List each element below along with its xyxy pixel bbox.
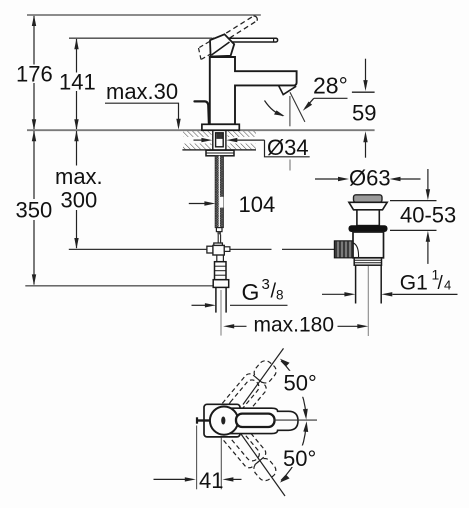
knurled knob — [334, 241, 353, 258]
dimension 40-53 — [427, 169, 429, 196]
svg-text:41: 41 — [199, 468, 223, 493]
counter top line — [27, 129, 375, 131]
svg-text:G: G — [242, 279, 260, 305]
escutcheon — [202, 124, 239, 130]
28 deg spray line — [290, 92, 305, 122]
svg-text:max.180: max.180 — [254, 314, 335, 337]
drain body — [353, 232, 384, 258]
lower 50deg leader diagonal — [241, 434, 285, 496]
rod linkage fitting — [214, 243, 223, 247]
label G1 1/4 with leader — [322, 293, 345, 295]
handle base — [210, 34, 234, 56]
water stream line — [289, 96, 291, 126]
50deg centerline — [274, 419, 317, 421]
ribbed nut band — [354, 258, 381, 265]
svg-text:Ø34: Ø34 — [267, 135, 309, 160]
threaded adapter — [215, 262, 227, 280]
svg-text:max.: max. — [55, 164, 103, 189]
hose end tip — [216, 228, 222, 232]
threaded shank — [213, 130, 226, 150]
svg-text:300: 300 — [61, 188, 98, 213]
drain neck — [357, 210, 379, 226]
svg-text:176: 176 — [16, 62, 53, 87]
pull rod lower — [217, 234, 219, 244]
pivot circle — [210, 407, 238, 435]
pull rod (top view) — [197, 419, 210, 421]
dimension Ø34 — [194, 139, 204, 141]
supply reference line — [25, 285, 213, 287]
svg-text:/: / — [438, 273, 444, 294]
svg-text:350: 350 — [16, 198, 53, 223]
neck — [216, 255, 218, 262]
spout-top reference line — [69, 37, 212, 39]
pop-up rod line — [69, 248, 272, 250]
svg-text:3: 3 — [262, 276, 270, 293]
dimension 141 — [74, 38, 78, 130]
pipe centerline — [220, 290, 222, 336]
handle slot — [236, 414, 275, 427]
lever bar — [212, 38, 278, 42]
dimension 176 — [32, 15, 36, 130]
dashed rotated handle base — [199, 42, 212, 60]
svg-text:28°: 28° — [313, 73, 348, 99]
dimension max.300 — [74, 130, 78, 249]
keyhole dot — [221, 417, 225, 425]
upper 50deg leader diagonal — [243, 348, 284, 404]
top reference line — [27, 14, 261, 16]
aerator wedge — [279, 85, 297, 94]
flexible hoses — [215, 156, 223, 228]
label G3/8 with leader — [192, 304, 208, 306]
counter bottom line — [182, 149, 256, 151]
drain tail pipe — [355, 265, 357, 303]
o-ring — [349, 225, 388, 232]
dashed handle rotated down 50deg — [209, 407, 281, 486]
connection nut G3/8 — [213, 280, 229, 288]
dimension max.180 — [223, 324, 234, 328]
drain centerline — [367, 266, 369, 336]
dimension 104 — [189, 203, 206, 205]
label 50deg lower — [281, 446, 320, 468]
svg-text:141: 141 — [59, 70, 96, 95]
tail pipe — [215, 287, 217, 312]
solid handle top view — [224, 408, 298, 433]
dashed raised lever — [212, 16, 257, 47]
drain flange — [349, 202, 387, 210]
svg-text:50°: 50° — [283, 446, 316, 471]
mounting washer and nut — [206, 150, 234, 156]
svg-text:40-53: 40-53 — [400, 203, 456, 228]
svg-text:Ø63: Ø63 — [349, 166, 391, 191]
dimension Ø63 — [315, 178, 340, 180]
svg-text:50°: 50° — [284, 371, 317, 396]
lower angle arc — [281, 427, 306, 481]
pull rod hook — [195, 101, 210, 125]
dimension 59 — [365, 59, 367, 87]
svg-text:104: 104 — [239, 192, 276, 217]
arrow to counter — [176, 119, 180, 130]
base square plate — [204, 404, 240, 437]
dimension 350 — [32, 130, 36, 285]
svg-text:max.30: max.30 — [106, 79, 178, 104]
drain centerline dash — [289, 160, 291, 171]
raised lever tip — [254, 16, 258, 21]
faucet body and spout — [210, 57, 297, 124]
svg-text:4: 4 — [444, 278, 451, 293]
dashed handle rotated up 50deg — [209, 356, 281, 435]
dimension 41 — [196, 426, 198, 490]
svg-text:8: 8 — [276, 288, 284, 303]
drain pop-up cap — [354, 195, 383, 203]
spray arc arrow — [265, 101, 284, 116]
upper angle arc — [281, 361, 306, 415]
svg-text:59: 59 — [352, 101, 376, 126]
svg-text:G1: G1 — [400, 272, 428, 295]
counter hatch — [183, 130, 256, 149]
label 50deg upper — [281, 371, 319, 397]
